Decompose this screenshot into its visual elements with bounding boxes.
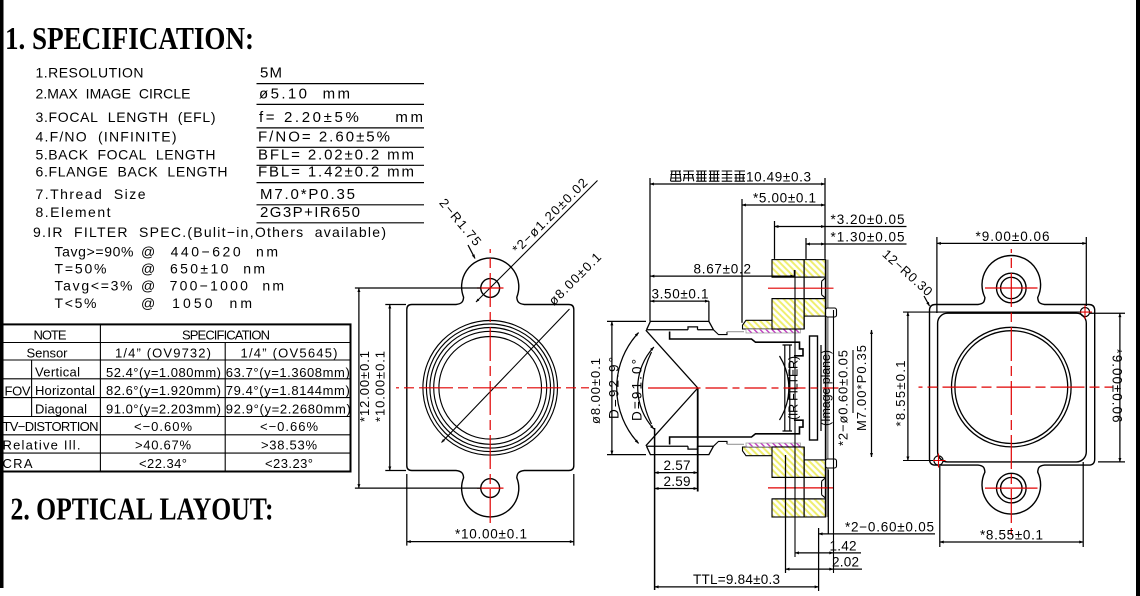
- svg-text:@ 700−1000 nm: @ 700−1000 nm: [141, 278, 284, 294]
- red vertical centerline: [489, 249, 491, 527]
- spec value underlines: [257, 84, 425, 223]
- holder hatched block top mid-right: [804, 299, 826, 317]
- svg-text:Horizontal: Horizontal: [35, 383, 95, 398]
- svg-text:*9.00±0.06: *9.00±0.06: [976, 229, 1050, 244]
- bottom mounting hole (double circle): [1001, 477, 1022, 498]
- svg-text:10.49±0.3: 10.49±0.3: [746, 170, 811, 185]
- svg-text:*9.00±0.06: *9.00±0.06: [1110, 349, 1125, 423]
- svg-text:3.FOCAL LENGTH (EFL): 3.FOCAL LENGTH (EFL): [36, 109, 216, 125]
- dim 8.67 right extension: [793, 270, 795, 277]
- magenta thread hatch top: [746, 329, 801, 333]
- dim 3.20 line with shelf: [775, 226, 826, 228]
- dim 5.00 line: [742, 204, 825, 206]
- svg-text:1.42: 1.42: [830, 538, 857, 553]
- svg-text:*5.00±0.1: *5.00±0.1: [753, 191, 816, 206]
- svg-text:8.67±0.2: 8.67±0.2: [694, 262, 752, 277]
- holder hatched block bottom mid-left: [772, 447, 804, 477]
- svg-text:Vertical: Vertical: [35, 365, 80, 380]
- svg-text:Relative Ill.: Relative Ill.: [3, 438, 81, 453]
- svg-text:2G3P+IR650: 2G3P+IR650: [260, 204, 360, 221]
- extension lines for 12.00: [355, 287, 481, 289]
- holder hatched block bottom mid-right: [804, 460, 826, 478]
- lens front cap top underside: [647, 327, 714, 330]
- dim 3.50 right extension: [708, 301, 710, 321]
- svg-text:*8.55±0.1: *8.55±0.1: [980, 528, 1043, 543]
- svg-text:@ 1050 nm: @ 1050 nm: [141, 295, 252, 311]
- svg-text:2.MAX IMAGE CIRCLE: 2.MAX IMAGE CIRCLE: [36, 85, 191, 101]
- dim *9.00 right line: [1119, 313, 1121, 462]
- dimension *12.00±0.1 line: [358, 288, 360, 488]
- lens barrel concentric circles: [423, 321, 558, 456]
- red crosshair corner hole top-right: [1078, 305, 1092, 319]
- barrel gray thread line top: [727, 331, 744, 333]
- svg-text:ø8.00±0.1: ø8.00±0.1: [588, 358, 603, 424]
- svg-text:ø8.00±0.1: ø8.00±0.1: [545, 249, 604, 308]
- leader for 12-R0.30: [924, 296, 930, 306]
- svg-text:*12.00±0.1: *12.00±0.1: [357, 351, 372, 422]
- dim 10.49 extension right: [824, 178, 826, 259]
- svg-text:ø5.10 mm: ø5.10 mm: [259, 85, 350, 102]
- svg-text:63.7°(y=1.3608mm): 63.7°(y=1.3608mm): [226, 365, 350, 380]
- svg-text:*8.55±0.1: *8.55±0.1: [893, 361, 908, 427]
- image plane rectangle: [810, 336, 818, 440]
- svg-text:2−R1.75: 2−R1.75: [436, 195, 484, 248]
- dim ø8.00 barrel: line: [611, 321, 613, 454]
- svg-text:*2−0.60±0.05: *2−0.60±0.05: [845, 519, 934, 534]
- red vertical centerline: [1010, 249, 1012, 535]
- svg-text:52.4°(y=1.080mm): 52.4°(y=1.080mm): [106, 365, 221, 380]
- holder right face line: [824, 260, 826, 517]
- svg-text:T=50%: T=50%: [55, 261, 107, 277]
- page frame left bar: [0, 0, 4, 588]
- FOV cone upper line: [646, 330, 698, 388]
- svg-text:f= 2.20±5% mm: f= 2.20±5% mm: [259, 109, 423, 126]
- dim 8.67 line: [650, 275, 794, 277]
- svg-text:SPECIFICATION: SPECIFICATION: [182, 328, 270, 343]
- leader for 2-R1.75: [468, 245, 475, 259]
- top mounting hole (double circle): [1001, 277, 1022, 298]
- page frame right bar: [1136, 0, 1140, 596]
- top screw hole band: [772, 277, 826, 299]
- angle arc D=91.0: [638, 347, 654, 429]
- svg-text:TV−DISTORTION: TV−DISTORTION: [3, 419, 99, 434]
- svg-text:1/4” (OV5645): 1/4” (OV5645): [241, 345, 338, 360]
- svg-text:2.59: 2.59: [664, 474, 691, 489]
- dim *9.00 top: extensions: [936, 237, 938, 313]
- dim *2-0.60±0.05 leader: [827, 470, 829, 534]
- spec list labels: [33, 65, 386, 311]
- barrel gray thread line bottom: [727, 443, 744, 445]
- svg-text:@ 650±10 nm: @ 650±10 nm: [141, 261, 265, 277]
- svg-text:5.BACK FOCAL LENGTH: 5.BACK FOCAL LENGTH: [36, 146, 216, 162]
- dim 10.49 overall: extension left: [649, 178, 651, 321]
- svg-text:4.F/NO (INFINITE): 4.F/NO (INFINITE): [36, 128, 177, 144]
- screw boss tab top: [826, 308, 837, 317]
- svg-text:D=92.9°: D=92.9°: [607, 357, 622, 419]
- svg-text:1. SPECIFICATION:: 1. SPECIFICATION:: [5, 20, 254, 56]
- angle arc D=92.9: [617, 333, 639, 444]
- spec table text: [3, 328, 351, 472]
- svg-text:CRA: CRA: [3, 456, 33, 471]
- sensor face line: [820, 345, 822, 431]
- dim 1.42 line: [795, 552, 833, 554]
- svg-text:*3.20±0.05: *3.20±0.05: [831, 212, 905, 227]
- block divider vertical top: [803, 260, 805, 329]
- dim *9.00 right: extensions: [1090, 312, 1125, 314]
- IR filter lines: [783, 345, 793, 431]
- dim 3.50 line: [650, 300, 709, 302]
- corner hole top-right: [1080, 308, 1089, 317]
- corner hole bottom-left: [934, 456, 943, 465]
- red horizontal centerline: [919, 386, 1114, 388]
- block divider vertical bottom: [803, 447, 805, 517]
- red crosshair corner hole bottom-left: [932, 454, 946, 468]
- underline for *2-ø0.60: [852, 350, 854, 413]
- svg-text:<23.23°: <23.23°: [265, 456, 313, 471]
- svg-text:*10.00±0.1: *10.00±0.1: [373, 351, 388, 422]
- top mounting hole: [481, 279, 500, 298]
- svg-text:7.Thread Size: 7.Thread Size: [36, 186, 146, 202]
- lens front cap bottom underside: [647, 446, 714, 449]
- front lens surface arc: [643, 352, 652, 424]
- bottom mounting hole: [481, 479, 500, 498]
- extension lines for bottom 10.00: [406, 474, 408, 546]
- svg-text:1.RESOLUTION: 1.RESOLUTION: [36, 65, 144, 81]
- spec list values: [258, 65, 423, 221]
- dim 3.20 extension: [774, 221, 776, 259]
- svg-text:F/NO= 2.60±5%: F/NO= 2.60±5%: [258, 128, 390, 145]
- svg-text:6.FLANGE BACK LENGTH: 6.FLANGE BACK LENGTH: [36, 164, 228, 180]
- dim *8.55 bottom: extensions: [939, 466, 941, 547]
- barrel top profile: [714, 330, 728, 335]
- svg-text:3.50±0.1: 3.50±0.1: [652, 287, 709, 302]
- diameter leader line ø8.00: [442, 309, 570, 443]
- svg-text:2.57: 2.57: [664, 458, 691, 473]
- svg-text:92.9°(y=2.2680mm): 92.9°(y=2.2680mm): [226, 402, 351, 417]
- back view inner cavity rounded square: [938, 313, 1087, 462]
- magenta thread hatch bottom: [746, 443, 801, 447]
- barrel bottom profile: [714, 441, 728, 446]
- back view outer plate outline with ears: [930, 255, 1095, 514]
- extension line front vertex (TTL left / 2.57): [654, 428, 656, 590]
- red tick top hole: [477, 287, 504, 289]
- screw boss tab bottom: [826, 459, 837, 468]
- rear lens surface arc: [780, 356, 789, 420]
- red centerline bottom screw hole: [768, 487, 834, 489]
- dim TTL line: [655, 586, 819, 588]
- svg-text:5M: 5M: [260, 65, 282, 82]
- holder hatched block top outer: [772, 260, 826, 278]
- svg-text:Diagonal: Diagonal: [35, 402, 87, 417]
- lens front cap top: [647, 321, 714, 329]
- dim *8.55 left: extensions: [903, 311, 1080, 313]
- extension lines bottom right: [785, 455, 787, 573]
- dim 2.02 line: [786, 568, 834, 570]
- svg-text:>38.53%: >38.53%: [261, 438, 317, 453]
- svg-text:9.IR FILTER SPEC.(Bulit−in,O: 9.IR FILTER SPEC.(Bulit−in,Others availa…: [33, 224, 386, 240]
- svg-text:M7.0*P0.35: M7.0*P0.35: [260, 186, 355, 203]
- svg-text:91.0°(y=2.203mm): 91.0°(y=2.203mm): [106, 402, 221, 417]
- dim 2.57 line: [655, 472, 698, 474]
- svg-text:FOV: FOV: [5, 383, 31, 398]
- red tick bottom hole: [477, 487, 504, 489]
- svg-text:TTL=9.84±0.3: TTL=9.84±0.3: [693, 572, 780, 587]
- svg-text:82.6°(y=1.920mm): 82.6°(y=1.920mm): [106, 383, 221, 398]
- red optical axis: [648, 387, 698, 389]
- red centerline top screw hole: [768, 287, 834, 289]
- bottom screw hole band: [772, 477, 826, 499]
- holder flange: bottom arm strip (hatched): [743, 447, 805, 456]
- svg-text:<22.34°: <22.34°: [139, 456, 187, 471]
- dim *8.55 bottom line: [940, 541, 1083, 543]
- M7 dimension vertical line: [871, 330, 873, 457]
- svg-text:<−0.66%: <−0.66%: [260, 419, 318, 434]
- apex vertical line / 2.59 extension: [697, 388, 699, 492]
- svg-text:NOTE: NOTE: [34, 328, 67, 343]
- extension lines for left 10.00: [385, 304, 406, 306]
- svg-text:Sensor: Sensor: [27, 345, 69, 360]
- svg-text:*1.30±0.05: *1.30±0.05: [831, 230, 905, 245]
- svg-text:8.Element: 8.Element: [36, 204, 111, 220]
- lens front cap bottom: [647, 446, 714, 454]
- spec table borders: [3, 324, 351, 471]
- dim *9.00 top line: [937, 242, 1086, 244]
- hanzi label 镜头锁附高度 (glyph boxes): [671, 171, 746, 181]
- svg-text:12−R0.30: 12−R0.30: [879, 246, 935, 299]
- dim 5.00 extension: [741, 199, 743, 323]
- svg-text:M7.00*P0.35: M7.00*P0.35: [854, 345, 869, 431]
- holder hatched block bottom outer: [772, 499, 826, 517]
- svg-text:BFL= 2.02±0.2 mm: BFL= 2.02±0.2 mm: [258, 146, 414, 163]
- svg-text:D=91.0°: D=91.0°: [630, 359, 645, 421]
- holder right face gray band: [826, 260, 829, 517]
- svg-text:*2−ø0.60±0.05: *2−ø0.60±0.05: [836, 350, 851, 446]
- barrel main top edge: [670, 332, 803, 356]
- FOV cone lower line: [646, 388, 698, 446]
- holder hatched block top mid-left: [772, 299, 804, 329]
- svg-text:2. OPTICAL LAYOUT:: 2. OPTICAL LAYOUT:: [11, 491, 274, 527]
- svg-text:T<5%: T<5%: [55, 295, 97, 311]
- svg-text:*10.00±0.1: *10.00±0.1: [455, 527, 527, 542]
- back aperture circles: [952, 327, 1072, 447]
- svg-text:<−0.60%: <−0.60%: [134, 419, 192, 434]
- dim 1.30 extension: [805, 238, 807, 259]
- svg-text:>40.67%: >40.67%: [135, 438, 191, 453]
- svg-text:FBL= 1.42±0.2 mm: FBL= 1.42±0.2 mm: [258, 164, 414, 181]
- ø8.00 extension lines: [607, 320, 646, 322]
- svg-text:2.02: 2.02: [832, 555, 859, 570]
- red tick bottom hole: [985, 487, 1038, 489]
- svg-text:Tavg>=90%: Tavg>=90%: [55, 244, 134, 260]
- barrel main bottom edge: [670, 420, 803, 444]
- svg-text:@ 440−620 nm: @ 440−620 nm: [141, 244, 278, 260]
- svg-text:*2−ø1.20±0.02: *2−ø1.20±0.02: [509, 175, 590, 256]
- dim 2.59 line: [655, 488, 698, 490]
- red tick top hole: [985, 287, 1038, 289]
- hole leader line *2-ø1.20: [476, 181, 598, 303]
- dim 10.49 line: [650, 183, 825, 185]
- red horizontal centerline: [396, 387, 589, 389]
- svg-text:Tavg<=3%: Tavg<=3%: [55, 278, 133, 294]
- dimension *10.00±0.1 bottom line: [407, 541, 574, 543]
- dim 1.30 line with shelf: [806, 243, 825, 245]
- dimension *10.00±0.1 left line: [389, 305, 391, 471]
- dim *8.55 left line: [907, 312, 909, 460]
- svg-text:79.4°(y=1.8144mm): 79.4°(y=1.8144mm): [226, 383, 350, 398]
- holder flange: top arm strip (hatched): [743, 320, 805, 329]
- svg-text:1/4” (OV9732): 1/4” (OV9732): [115, 345, 211, 360]
- front view body outline with mounting ears: [407, 258, 574, 517]
